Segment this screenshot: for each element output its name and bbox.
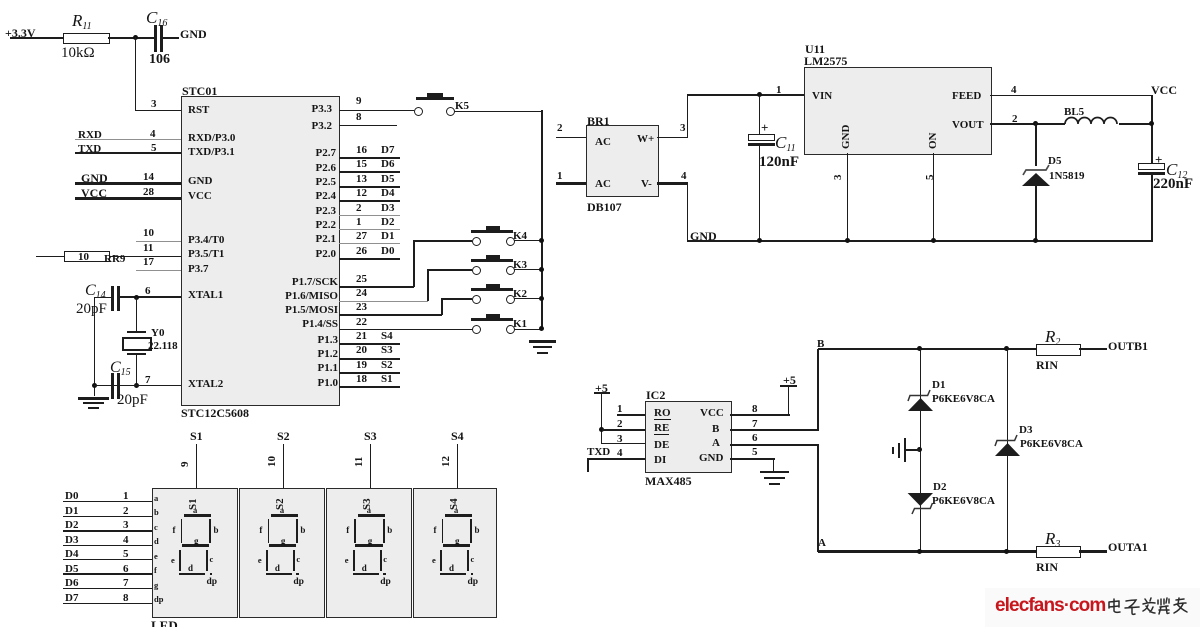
pin 3 BR1 wire up <box>680 123 686 134</box>
pin 1 BR1 <box>557 171 563 182</box>
wire left vertical down <box>94 297 95 396</box>
mcu left pin names <box>188 105 209 116</box>
pin 16 D7 <box>356 145 367 156</box>
wire to RST pin 3 <box>135 110 181 111</box>
net D7 row <box>65 593 78 604</box>
pin 25 <box>356 274 367 285</box>
wire XTAL2 pin7 <box>94 385 181 386</box>
pin 8 MAX485 +5 <box>752 404 758 415</box>
mcu U STC01 box <box>181 96 340 406</box>
pin 6 number <box>145 286 151 297</box>
wire junction down to RST <box>135 37 136 111</box>
ground under left vertical <box>78 397 109 400</box>
display S1 7-segment <box>152 488 238 618</box>
switch K4 <box>472 237 481 246</box>
node dots on A <box>917 549 922 554</box>
node dot mid <box>917 447 922 452</box>
wire pin25 riser to K4 <box>413 240 415 287</box>
crystal Y0 vertical top <box>136 297 137 332</box>
node dot top rail C11 <box>757 92 762 97</box>
pin 8 stub P3.2 <box>356 112 362 123</box>
switch K3 <box>472 266 481 275</box>
diode D3 P6KE6V8CA <box>990 433 1036 459</box>
pin 5 U11 ON down <box>925 175 936 181</box>
switch K1 <box>472 325 481 334</box>
diode D5 1N5819 <box>1035 123 1037 166</box>
wire pin24 riser to K3 <box>427 269 429 301</box>
pin 2 BR1 <box>557 123 563 134</box>
ground rail GND <box>690 230 717 242</box>
pin 22 <box>356 317 367 328</box>
pin 14 GND line <box>81 172 108 184</box>
net OUTB1 <box>1108 340 1148 352</box>
net B bus <box>817 339 824 350</box>
logo chinese 电子发烧友 <box>1106 597 1190 617</box>
pin 5 TXD line <box>78 144 101 155</box>
switch K2 <box>472 295 481 304</box>
node dot xtal1 <box>134 295 139 300</box>
wire D3 vertical <box>1007 349 1009 552</box>
wire A riser down <box>817 444 819 552</box>
pin 6 MAX485 A <box>752 433 758 444</box>
ic IC2 MAX485 box <box>645 401 732 473</box>
net A bus <box>818 538 826 549</box>
pin 3 number <box>151 99 157 110</box>
node junction dot <box>133 35 138 40</box>
net D1 row <box>65 506 78 517</box>
pin 3 MAX485 <box>617 434 623 445</box>
net OUTA1 <box>1108 541 1148 553</box>
inductor BL5 <box>1064 107 1084 118</box>
pin 4 BR1 wire down <box>681 171 687 182</box>
node dot left bottom <box>92 383 97 388</box>
pin 12 D4 <box>356 188 367 199</box>
pin 4 RXD line <box>78 130 102 141</box>
ground under K common <box>529 340 556 343</box>
regulator U11 box <box>804 67 992 155</box>
pin 24 <box>356 288 367 299</box>
node +3.3V <box>5 27 36 39</box>
node dot xtal2 <box>134 383 139 388</box>
net D2 row <box>65 520 78 531</box>
wire C14 left to vertical <box>94 297 111 298</box>
wire pin23 riser to K2 <box>441 298 443 315</box>
node dot VOUT/D5 <box>1033 121 1038 126</box>
node S3 select <box>364 430 377 442</box>
pin 27 D1 <box>356 231 367 242</box>
resistor R2 <box>1045 328 1060 348</box>
capacitor C11 <box>759 95 760 134</box>
pin 2 MAX485 <box>617 419 623 430</box>
diode D1 P6KE6V8CA <box>903 388 949 414</box>
capacitor C16 <box>154 25 157 52</box>
wire K5 right to common <box>454 111 542 112</box>
display LED label <box>151 619 178 627</box>
logo elecfans.com <box>995 595 1105 617</box>
pin 11 line + resistor RR9 <box>143 243 153 254</box>
crystal Y0 vertical bottom <box>136 355 137 386</box>
resistor R3 <box>1045 530 1060 550</box>
node GND label <box>180 28 207 40</box>
pin 7 MAX485 B <box>752 419 758 430</box>
wire +3.3V to R11 <box>10 37 64 39</box>
pin 17 line <box>143 257 154 268</box>
bridge BR1 box <box>586 125 659 197</box>
pin 23 <box>356 302 367 313</box>
pin 19 S2 <box>356 360 367 371</box>
wire R11 to C16 <box>108 37 154 39</box>
diode D2 P6KE6V8CA <box>903 489 949 517</box>
net D6 row <box>65 578 78 589</box>
net D0 row <box>65 491 78 502</box>
wire common vertical <box>541 110 543 330</box>
node S2 select <box>277 430 290 442</box>
pin 5 MAX485 gnd <box>752 447 758 458</box>
ground sideways left of D1/D2 <box>905 449 920 451</box>
pin 9 line P3.3 <box>356 96 362 107</box>
pin 1 MAX485 <box>617 404 623 415</box>
pin 18 S1 <box>356 374 367 385</box>
crystal Y0 <box>127 331 146 333</box>
pin 3 U11 GND down <box>833 175 844 181</box>
pin 15 D6 <box>356 159 367 170</box>
power +5 left <box>595 382 608 394</box>
node S1 select <box>190 430 203 442</box>
switch K5 <box>414 107 423 116</box>
wire D1D2 vertical <box>920 349 922 552</box>
pin 7 number <box>145 375 151 386</box>
wire C16 to GND <box>163 37 179 39</box>
pin 10 line <box>143 228 154 239</box>
net D4 row <box>65 549 78 560</box>
ground under pin5 <box>760 471 789 473</box>
display S3 7-segment <box>326 488 413 618</box>
pin 2 VOUT wire <box>1012 114 1018 125</box>
wire TXD stub down <box>587 458 589 472</box>
display S4 7-segment <box>413 488 497 618</box>
pin 4 MAX485 TXD <box>587 447 610 458</box>
capacitor C15 <box>111 373 114 399</box>
net D3 row <box>65 535 78 546</box>
net D5 row <box>65 564 78 575</box>
node dots on B <box>917 346 922 351</box>
pin 21 S4 <box>356 331 367 342</box>
pin 4 FEED wire <box>1011 85 1017 96</box>
display S2 7-segment <box>239 488 325 618</box>
mcu right pin names <box>312 104 332 115</box>
pin 13 D5 <box>356 174 367 185</box>
SECTION: logo <box>985 588 1200 627</box>
wire XTAL1 pin6 <box>118 296 181 297</box>
pin 2 D3 <box>356 203 362 214</box>
node S4 select <box>451 430 464 442</box>
node VCC <box>1151 84 1177 96</box>
capacitor C14 <box>111 286 114 311</box>
pin 1 U11 label <box>776 85 782 96</box>
resistor R11 <box>63 33 110 44</box>
pin 28 VCC line <box>81 187 107 199</box>
pin 26 D0 <box>356 246 367 257</box>
wire B riser <box>817 349 819 430</box>
wire top rail to VIN <box>687 94 804 96</box>
pin 20 S3 <box>356 345 367 356</box>
resistor RR9 <box>64 251 110 262</box>
capacitor C12 <box>1155 153 1162 166</box>
pin 1 D2 <box>356 217 362 228</box>
